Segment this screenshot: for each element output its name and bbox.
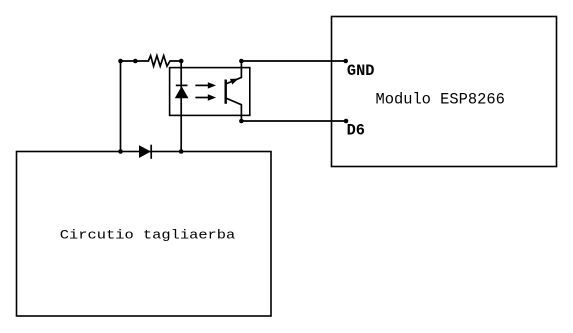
svg-text:Modulo ESP8266: Modulo ESP8266 [376,91,505,109]
svg-text:GND: GND [347,62,375,80]
svg-text:D6: D6 [347,122,365,140]
svg-text:Circutio tagliaerba: Circutio tagliaerba [60,228,236,243]
